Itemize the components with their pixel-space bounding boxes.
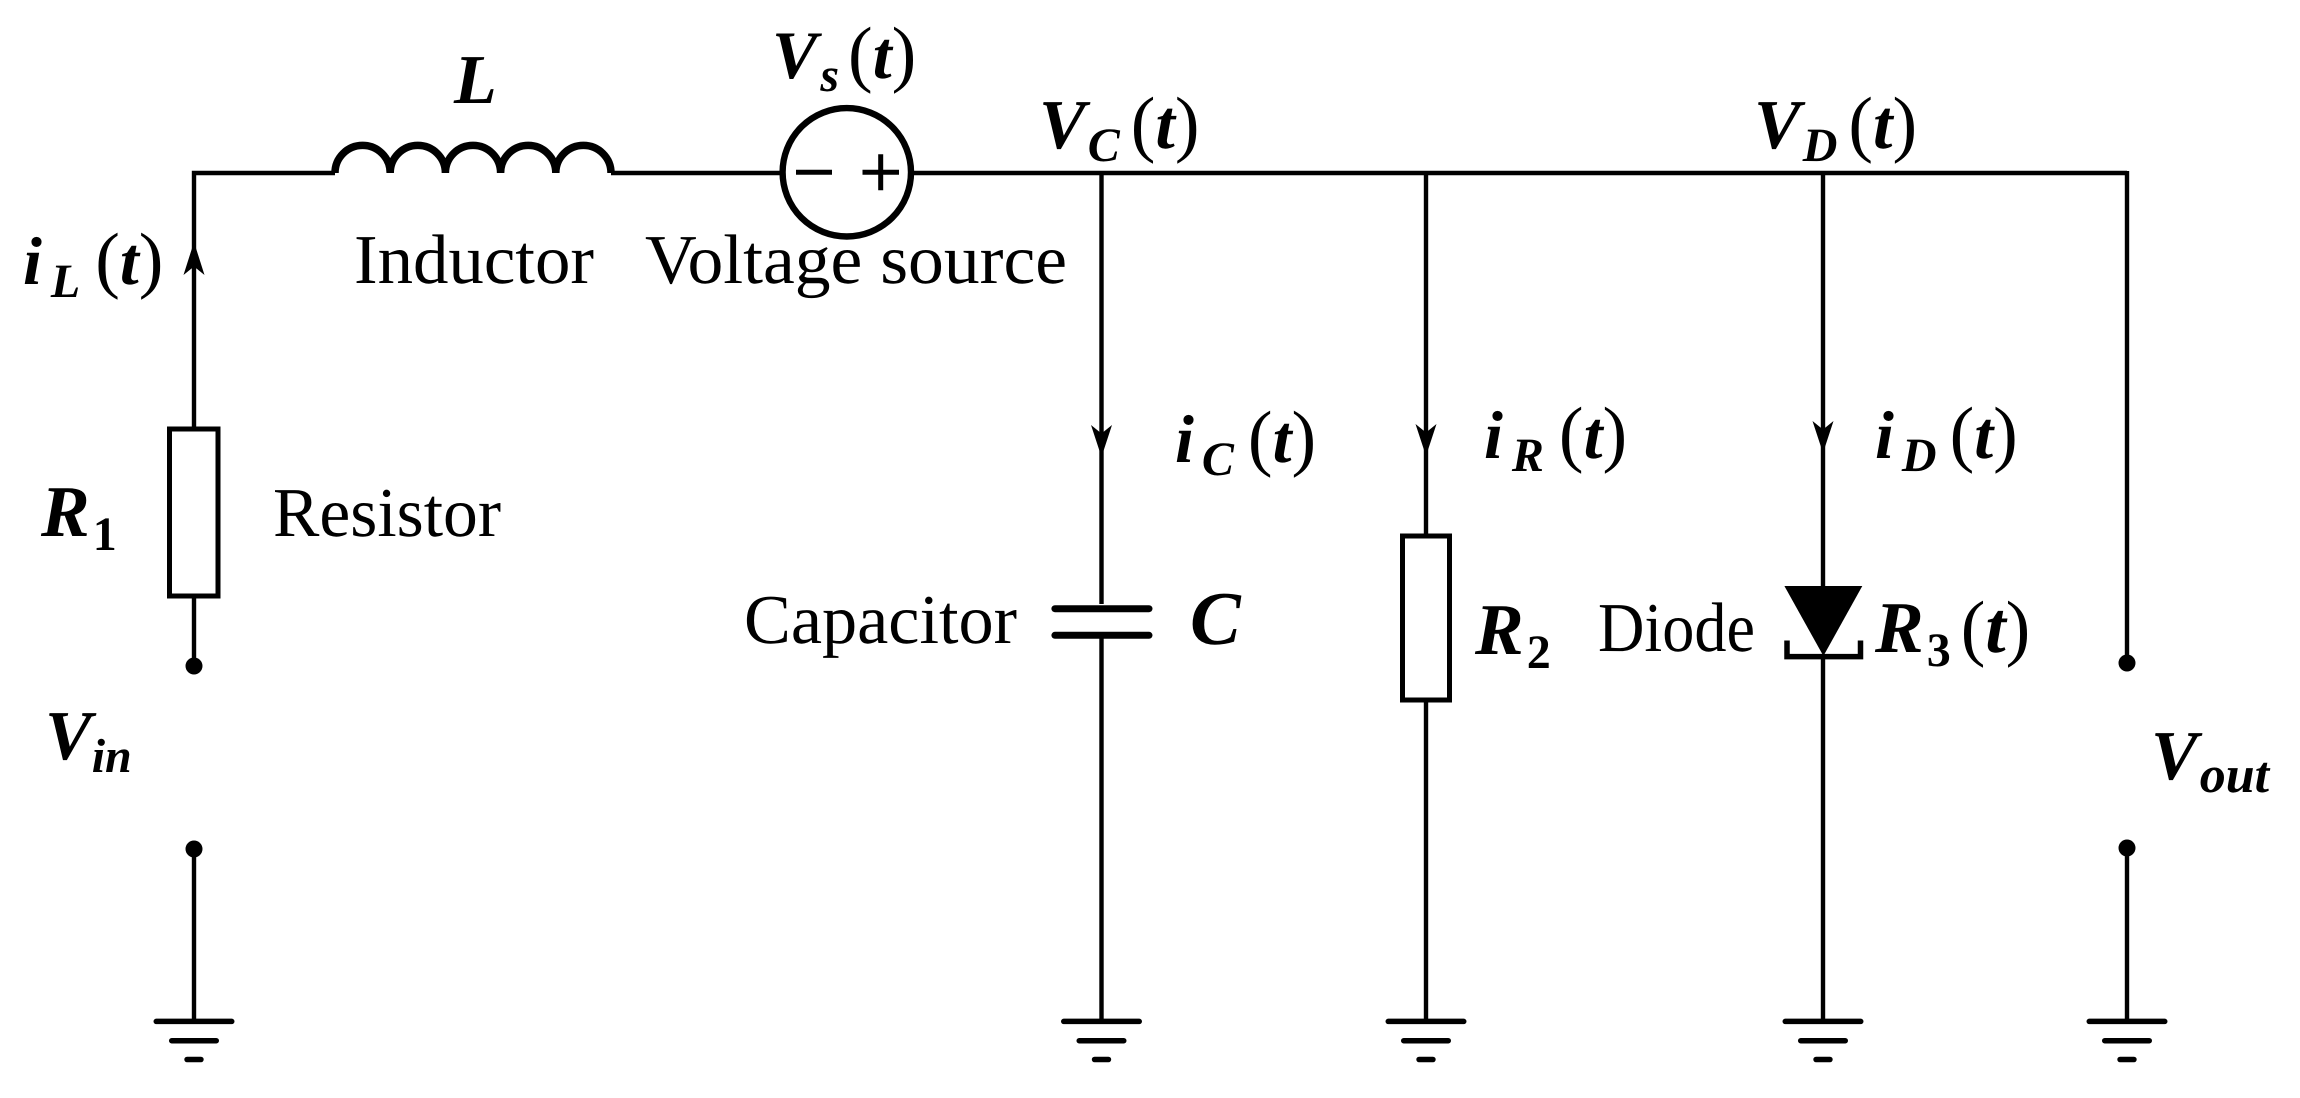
minus sign inside source — [796, 170, 832, 175]
arrow iL (up) — [184, 242, 205, 275]
svg-text:Voltage source: Voltage source — [645, 222, 1067, 299]
arrow iC (down) — [1091, 425, 1112, 457]
wire: R2 bottom to ground — [1424, 700, 1428, 1021]
plus sign inside source — [863, 154, 900, 190]
wire: diode branch top — [1821, 173, 1825, 590]
wire: voltage source to right corner — [911, 171, 2127, 175]
arrow iD (down) — [1813, 421, 1834, 453]
capacitor C plates — [1055, 605, 1149, 612]
ground (under R2) — [1388, 1021, 1464, 1059]
wire: diode bottom to ground — [1821, 656, 1825, 1021]
wire: R2 branch top — [1424, 173, 1428, 537]
node Vout terminal dot lower — [2119, 840, 2136, 857]
ground (left, under Vin) — [156, 1021, 232, 1059]
node Vin terminal dot lower — [186, 841, 203, 858]
svg-text:L: L — [453, 42, 497, 119]
svg-text:Diode: Diode — [1598, 590, 1755, 667]
svg-text:Inductor: Inductor — [354, 222, 594, 299]
resistor R1 — [170, 429, 219, 596]
inductor L — [335, 145, 611, 173]
wire: R1 bottom to Vin terminal — [192, 596, 196, 664]
wire: right branch down to Vout — [2125, 171, 2129, 661]
svg-text:Resistor: Resistor — [273, 475, 501, 552]
wire: Vin lower dot to ground — [192, 851, 196, 1021]
ground (under diode) — [1785, 1021, 1861, 1059]
diode D triangle (anode) — [1784, 586, 1862, 656]
resistor R2 — [1403, 536, 1450, 700]
wire: capacitor branch top — [1099, 173, 1103, 604]
wire: top horizontal left segment (node Vin top to inductor) — [194, 173, 335, 431]
node Vin terminal dot upper — [186, 658, 203, 675]
diode cathode bar — [1787, 641, 1861, 657]
wire: Vout lower dot to ground — [2125, 850, 2129, 1021]
ground (under capacitor) — [1064, 1021, 1140, 1059]
arrow iR (down) — [1416, 424, 1437, 456]
node Vout terminal dot upper — [2119, 655, 2136, 672]
svg-text:Capacitor: Capacitor — [744, 582, 1017, 659]
wire: inductor to voltage source — [611, 171, 783, 175]
ground (right, under Vout) — [2089, 1021, 2165, 1059]
svg-text:C: C — [1190, 577, 1242, 661]
voltage source Vs circle — [783, 108, 911, 236]
wire: capacitor bottom to ground — [1099, 638, 1103, 1021]
